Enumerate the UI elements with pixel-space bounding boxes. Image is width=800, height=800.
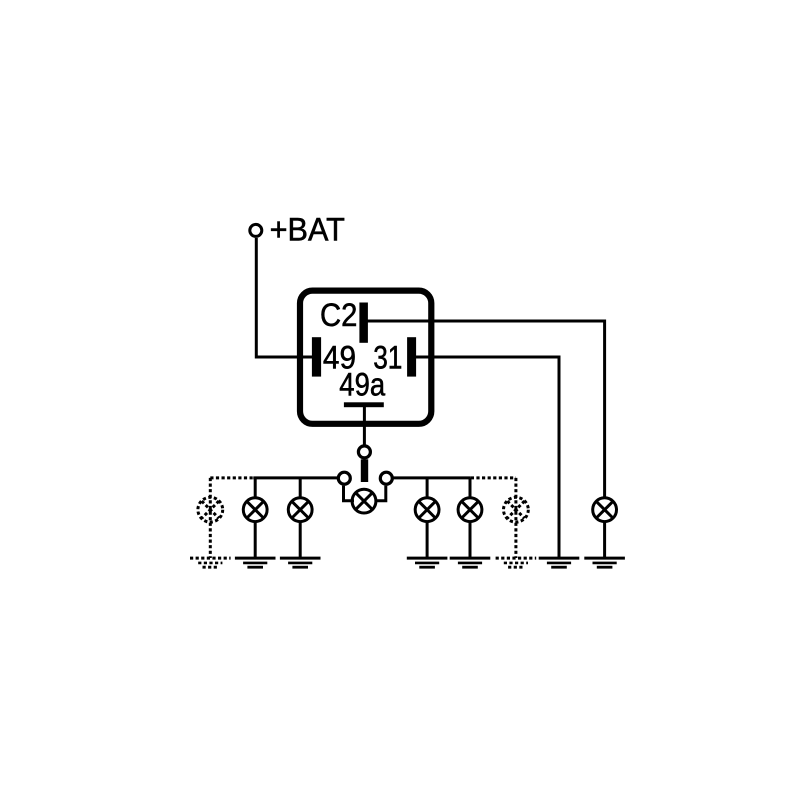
optional lamp L6 dotted (198, 497, 223, 522)
wire lamp L2 to ground (299, 522, 302, 559)
wire +BAT to pin 49 (256, 238, 314, 357)
lamp L4 (458, 498, 482, 522)
wire lamp L3 to ground (426, 522, 429, 559)
wire lamp L1 to ground (254, 522, 257, 559)
ground G6 (584, 558, 625, 567)
terminal +BAT (250, 224, 262, 236)
ground G4 (450, 558, 491, 567)
ground G8 dotted (496, 558, 537, 567)
wire lamp L4 to ground (469, 522, 472, 559)
pin 31 (407, 337, 416, 376)
ground G5 for pin 31 (539, 558, 580, 567)
wire 49a to switch (363, 407, 366, 446)
wire 31 to right ground (416, 357, 560, 558)
ground G2 (280, 558, 321, 567)
ground G7 dotted (190, 558, 231, 567)
pin 49 (312, 337, 321, 376)
ground G1 (235, 558, 276, 567)
wire drop lamp L4 (469, 478, 472, 498)
switch S1 lever (361, 459, 368, 482)
wire lamp L5 to ground (603, 522, 606, 559)
wire drop lamp L2 (299, 478, 302, 498)
wire drop lamp L3 (426, 478, 429, 498)
lamp L1 (243, 498, 267, 522)
pin 49a (344, 402, 384, 407)
svg-text:49a: 49a (339, 366, 385, 402)
optional lamp L6 dotted left wire (210, 478, 253, 558)
optional lamp L7 dotted (504, 497, 529, 522)
wire right contact to indicator lamp (375, 486, 386, 501)
wire right bus (394, 476, 471, 479)
wire drop lamp L1 (254, 478, 257, 498)
lamp L2 (288, 498, 312, 522)
optional lamp L7 dotted right wire (471, 478, 516, 558)
wire C2 to right lamp (368, 321, 605, 497)
wire left contact to indicator lamp (344, 486, 355, 501)
switch S1 left contact (338, 472, 350, 484)
pin C2 (359, 303, 368, 343)
wire left bus (253, 476, 337, 479)
switch S1 right contact (380, 472, 392, 484)
svg-text:C2: C2 (320, 297, 357, 333)
lamp L3 (415, 498, 439, 522)
switch S1 top contact (358, 446, 370, 458)
lamp L5 right (593, 498, 617, 522)
indicator lamp L0 (352, 489, 376, 513)
ground G3 (407, 558, 448, 567)
relay U1 body (300, 291, 431, 424)
svg-text:+BAT: +BAT (270, 212, 345, 248)
